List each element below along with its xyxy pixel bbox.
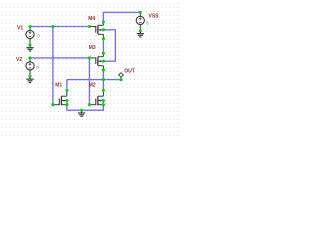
svg-text:VSS: VSS <box>149 13 160 19</box>
svg-text:OUT: OUT <box>124 69 135 75</box>
svg-text:M2: M2 <box>89 82 96 88</box>
svg-text:M3: M3 <box>89 45 96 51</box>
svg-text:V2: V2 <box>16 57 22 63</box>
svg-text:M1: M1 <box>55 82 62 88</box>
svg-text:M4: M4 <box>88 16 95 22</box>
svg-text:V1: V1 <box>17 25 23 31</box>
